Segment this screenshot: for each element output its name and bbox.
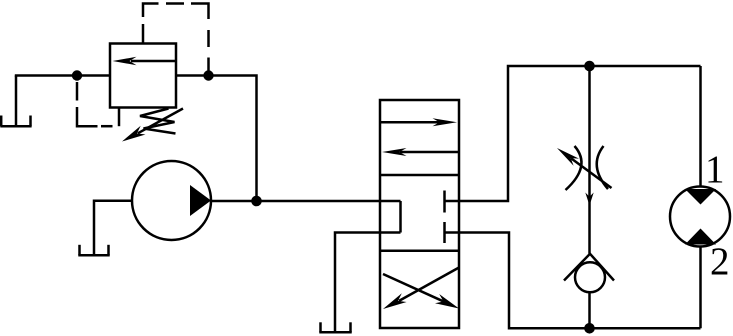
DV1 top position: parallel flow arrow right [380,118,457,126]
svg-text:2: 2 [710,240,730,283]
tank T3 (valve return reservoir) [319,322,351,332]
motor M1 lower triangle [685,229,716,245]
pump P1 output triangle [190,185,211,216]
wire: DV1 port A up to top rail [445,66,701,201]
throttle flow direction arrowhead [585,193,593,206]
DV1 center position: blocked left ports bracket [399,201,402,233]
check valve CV1 ball [575,262,605,292]
throttle valve F1 arcs [566,146,609,190]
tank T1 (reservoir, top left) [0,76,31,127]
wire: check valve to bottom rail [588,292,591,328]
DV1 top position: parallel flow arrow left [382,148,459,156]
relief valve adjustment arrow [122,109,183,142]
wire: tank T1 to relief valve inlet [15,74,110,77]
motor M1 circle [670,187,730,247]
node J4 (top rail junction) [584,61,595,72]
relief valve internal flow arrow [113,57,177,65]
motor M1 upper triangle [685,189,716,205]
DV1 bottom position: crossed arrow to lower-left [383,268,459,310]
wire: top rail down to motor M1 [699,66,702,187]
wire: motor M1 to bottom rail [699,247,702,329]
wire: DV1 port B down to bottom rail [445,233,701,329]
wire: DV1 port T to tank T3 [335,233,401,333]
wire: relief valve outlet right and down to pump node [176,76,257,202]
node J5 (bottom rail junction) [584,323,595,334]
node J1 (pilot tap on inlet line) [72,70,82,80]
check valve CV1 seat chevron [564,254,614,281]
tank T2 (pump suction reservoir) [78,245,109,256]
DV1 bottom position: crossed arrow to lower-right [383,274,459,309]
wire: pump outlet to directional valve port P [210,200,401,203]
node J3 (pump outlet junction) [251,196,262,207]
DV1 center position: blocked right port T bars [443,191,446,244]
pilot line (dashed) relief valve top to node J2 [143,4,209,73]
wire: throttle branch vertical [588,66,591,254]
directional valve DV1 body (three positions) [380,100,459,328]
throttle adjustment arrow [557,148,612,188]
pilot line (dashed) J1 to relief valve bottom [77,82,119,126]
node J2 (pilot junction on outlet line) [203,70,213,80]
relief valve V1 body [110,44,176,108]
svg-text:1: 1 [705,148,725,191]
relief valve spring [140,109,176,134]
wire: pump suction line [94,201,132,256]
pump P1 circle [132,161,211,240]
